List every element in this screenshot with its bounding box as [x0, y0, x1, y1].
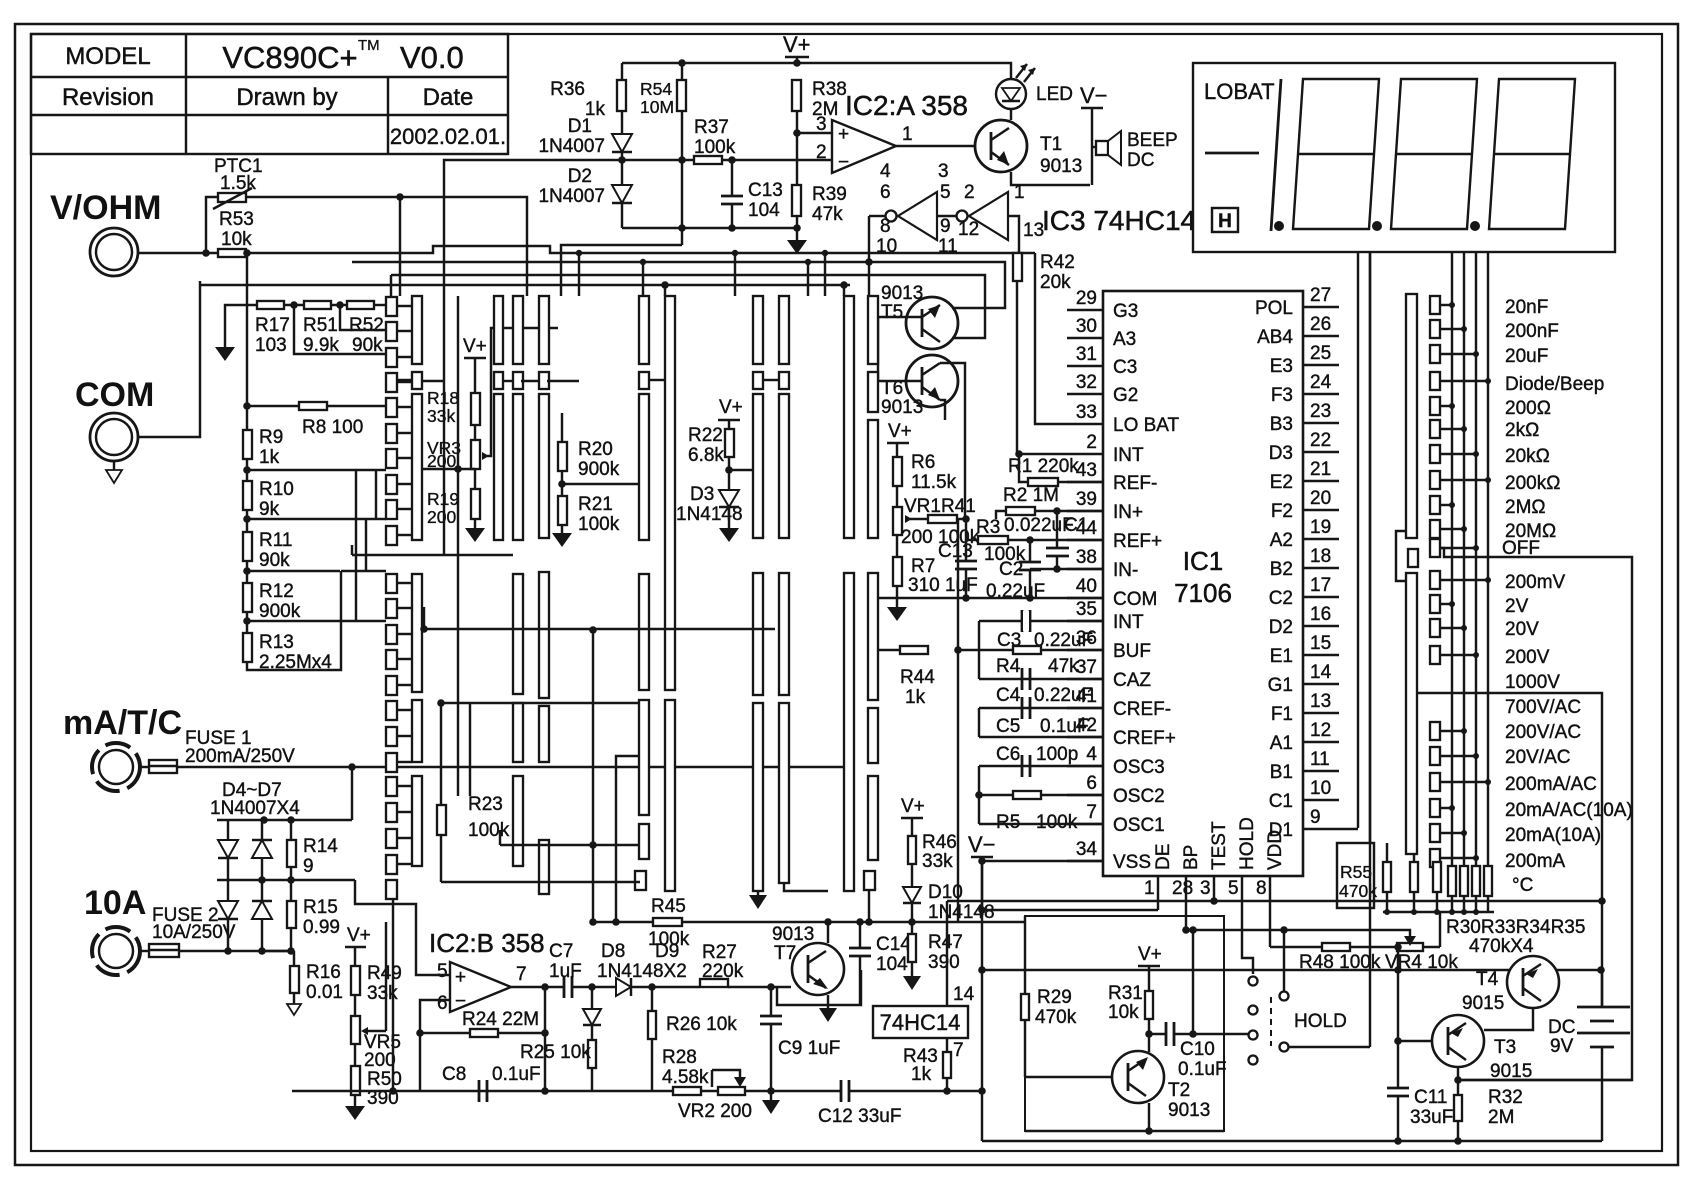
svg-text:5: 5 — [1228, 878, 1239, 899]
node R8 — [243, 402, 251, 410]
wire display to hold — [1369, 252, 1371, 1047]
svg-text:IC1: IC1 — [1183, 546, 1223, 576]
svg-text:V+: V+ — [901, 796, 925, 817]
svg-text:470k: 470k — [1035, 1007, 1077, 1028]
svg-text:R10: R10 — [259, 479, 294, 500]
wire PTC1 output — [246, 197, 527, 296]
switch contact — [386, 753, 397, 772]
svg-text:R52: R52 — [349, 315, 384, 336]
pin 20 F2 — [1303, 509, 1339, 511]
svg-text:23: 23 — [1310, 401, 1331, 422]
wire — [1270, 946, 1322, 948]
pin 35 INT — [1067, 620, 1103, 622]
wire — [1440, 380, 1488, 382]
junction — [589, 841, 597, 849]
wire — [503, 380, 513, 382]
wire COM bus — [200, 284, 850, 286]
wire — [1024, 916, 1026, 994]
svg-text:100k: 100k — [468, 820, 510, 841]
svg-text:V+: V+ — [1138, 944, 1162, 965]
wire — [946, 1078, 948, 1091]
resistor R16 — [293, 951, 295, 966]
svg-text:32: 32 — [1076, 372, 1097, 393]
junction — [1454, 1137, 1462, 1145]
wire — [1383, 911, 1494, 913]
svg-text:R5: R5 — [996, 812, 1020, 833]
svg-text:5: 5 — [940, 182, 951, 203]
wire drop x643 — [642, 262, 644, 296]
resistor R25 — [588, 1040, 596, 1068]
wire D1-D2 node to left and down — [618, 156, 626, 164]
svg-text:9k: 9k — [259, 499, 280, 520]
wire — [397, 379, 412, 381]
pin 38 IN- — [1067, 568, 1103, 570]
resistor R49 — [351, 966, 360, 995]
resistor R21 — [558, 496, 567, 525]
svg-text:C6: C6 — [996, 744, 1020, 765]
svg-text:TM: TM — [358, 37, 380, 54]
wire opamp out to T1 base — [896, 145, 976, 147]
pin 26 AB4 — [1303, 335, 1339, 337]
wire — [947, 1090, 983, 1092]
digit 8 #1 — [1293, 79, 1379, 229]
svg-text:4: 4 — [880, 161, 891, 182]
switch wafer bar — [753, 394, 763, 538]
svg-text:20V: 20V — [1505, 619, 1539, 640]
svg-text:H: H — [1218, 211, 1232, 232]
wire — [1457, 1121, 1459, 1141]
svg-text:12: 12 — [958, 219, 979, 240]
wire bottom rail — [982, 1140, 1602, 1142]
svg-text:10A: 10A — [84, 884, 146, 922]
junction — [1394, 1137, 1402, 1145]
svg-text:R32: R32 — [1488, 1087, 1523, 1108]
junction — [908, 918, 916, 926]
svg-text:100k: 100k — [1036, 812, 1078, 833]
node + wire to stubs — [243, 466, 251, 474]
svg-text:C8: C8 — [442, 1064, 466, 1085]
svg-text:R49: R49 — [367, 963, 402, 984]
svg-text:27: 27 — [1310, 285, 1331, 306]
svg-text:R36: R36 — [550, 79, 585, 100]
svg-text:8: 8 — [1256, 878, 1267, 899]
ground arrow below R21 — [552, 533, 572, 547]
svg-text:A1: A1 — [1270, 733, 1293, 754]
svg-text:C7: C7 — [549, 941, 573, 962]
svg-text:900k: 900k — [578, 459, 620, 480]
wire — [397, 406, 412, 408]
svg-text:R20: R20 — [578, 439, 613, 460]
junction — [1473, 652, 1479, 658]
svg-text:220k: 220k — [702, 961, 744, 982]
switch wafer bar — [494, 296, 503, 364]
svg-text:R51: R51 — [303, 315, 338, 336]
wire — [763, 379, 779, 381]
resistor R32 — [1454, 1095, 1462, 1121]
wire T6 to R41 node — [940, 363, 965, 519]
switch wafer bar — [753, 573, 763, 695]
svg-text:9013: 9013 — [881, 397, 923, 418]
wire R54 bottom to bars — [561, 245, 682, 296]
wire — [397, 483, 412, 485]
svg-text:13: 13 — [1310, 691, 1331, 712]
resistor R13 — [243, 633, 252, 662]
pin 19 A2 — [1303, 538, 1339, 540]
svg-text:REF-: REF- — [1113, 473, 1157, 494]
svg-text:CREF-: CREF- — [1113, 699, 1171, 720]
wire ladder riser to V bus — [246, 253, 248, 406]
svg-text:47k: 47k — [1048, 656, 1079, 677]
svg-text:2V: 2V — [1505, 596, 1529, 617]
resistor VR2 — [718, 1087, 745, 1095]
wire — [1350, 946, 1397, 948]
wire T2 base — [1025, 1076, 1112, 1078]
svg-text:R28: R28 — [662, 1047, 697, 1068]
pin 6 OSC2 — [1067, 794, 1103, 796]
svg-text:R4: R4 — [996, 656, 1021, 677]
resistor R43 — [943, 1052, 951, 1078]
svg-text:A3: A3 — [1113, 329, 1136, 350]
wire — [397, 508, 412, 510]
svg-text:COM: COM — [1113, 589, 1157, 610]
switch contact 2MΩ — [1430, 496, 1440, 514]
resistor R22 — [725, 429, 734, 457]
fuse FUSE1 — [140, 766, 149, 768]
junction — [1449, 403, 1455, 409]
svg-text:20uF: 20uF — [1505, 346, 1548, 367]
wire — [547, 380, 579, 382]
wire — [441, 881, 640, 883]
switch contact — [386, 526, 397, 545]
svg-text:F3: F3 — [1271, 385, 1293, 406]
switch contact 200V — [1430, 646, 1440, 664]
pin 23 B3 — [1303, 422, 1339, 424]
switch wafer bar — [779, 296, 789, 364]
switch wafer bar — [513, 394, 523, 540]
wire R52 left node jog down — [340, 305, 385, 330]
ground R16 hollow arrow — [293, 993, 295, 1004]
junction — [767, 983, 775, 991]
switch wafer bar — [753, 703, 763, 891]
wire — [397, 863, 412, 865]
svg-text:11: 11 — [938, 236, 958, 257]
wire — [651, 987, 653, 1011]
wire — [1440, 453, 1476, 455]
switch contact — [386, 701, 397, 720]
junction — [1461, 830, 1467, 836]
wire — [1440, 504, 1452, 506]
svg-text:470k: 470k — [1339, 881, 1377, 901]
switch contact — [386, 650, 397, 669]
switch contact — [386, 829, 397, 848]
svg-text:1: 1 — [1144, 878, 1155, 899]
svg-text:R2 1M: R2 1M — [1003, 485, 1059, 506]
ground arrow below R39 — [787, 240, 807, 254]
switch wafer bar — [539, 372, 549, 389]
wire — [911, 864, 913, 887]
svg-text:R44: R44 — [900, 667, 935, 688]
wire — [1440, 428, 1464, 430]
svg-text:V+: V+ — [463, 336, 487, 357]
wire — [1283, 930, 1285, 992]
wire op-amp + input — [355, 880, 450, 975]
svg-text:C14: C14 — [876, 934, 911, 955]
switch wafer bar — [412, 776, 422, 866]
switch contact — [386, 574, 397, 593]
switch HOLD — [1249, 977, 1258, 986]
junction — [978, 1087, 986, 1095]
svg-text:VDD: VDD — [1265, 830, 1286, 870]
pin 12 A1 — [1303, 741, 1339, 743]
capacitor C14 104 — [849, 947, 871, 950]
svg-text:9: 9 — [940, 216, 951, 237]
junction — [1394, 966, 1402, 974]
wire T2 emitter — [1148, 1103, 1150, 1131]
switch contact 20mA/AC(10A) — [1430, 799, 1440, 817]
svg-text:33k: 33k — [427, 406, 455, 426]
wire — [1440, 832, 1464, 834]
svg-text:35: 35 — [1076, 599, 1097, 620]
wire — [1439, 912, 1441, 947]
svg-text:REF+: REF+ — [1113, 531, 1162, 552]
svg-text:10k: 10k — [221, 229, 252, 250]
junction — [1145, 1030, 1153, 1038]
wire VR4 to C11 — [1397, 947, 1399, 1088]
svg-text:C10: C10 — [1180, 1039, 1215, 1060]
switch wafer bar — [412, 574, 422, 692]
wire — [397, 811, 412, 813]
switch contact — [386, 398, 397, 417]
svg-text:28: 28 — [1172, 878, 1193, 899]
svg-text:33uF: 33uF — [1410, 1107, 1453, 1128]
wire — [592, 630, 594, 922]
terminal V/OHM — [50, 189, 161, 276]
svg-text:5: 5 — [437, 961, 448, 982]
wire COM row extension — [878, 597, 1103, 599]
resistor R7 — [893, 557, 902, 586]
wire — [1440, 603, 1452, 605]
wire drop x735 — [734, 253, 736, 296]
pin 10 C1 — [1303, 799, 1339, 801]
svg-text:0.1uF: 0.1uF — [1040, 716, 1089, 737]
wire drop x391 — [390, 275, 392, 296]
inverter gates — [898, 192, 937, 240]
svg-text:IN+: IN+ — [1113, 502, 1143, 523]
wire — [651, 1039, 653, 1091]
pin 30 A3 — [1067, 337, 1103, 339]
resistor R39 — [792, 185, 801, 216]
wire T7 bias box — [777, 970, 861, 1005]
svg-text:200V: 200V — [1505, 647, 1550, 668]
resistor R12 — [243, 583, 252, 612]
pin 32 G2 — [1067, 393, 1103, 395]
switch contact 200Ω — [1430, 397, 1440, 415]
wire — [498, 1032, 545, 1034]
svg-text:B2: B2 — [1270, 559, 1293, 580]
switch contact — [386, 500, 397, 519]
wire battery - — [1601, 1047, 1603, 1141]
leading digit 1 — [1271, 79, 1281, 231]
pin 39 IN+ — [1067, 510, 1103, 512]
svg-text:C2: C2 — [1269, 588, 1293, 609]
junction — [1449, 302, 1455, 308]
switch wafer bar — [539, 840, 549, 894]
wire — [1148, 966, 1150, 991]
svg-text:1N4007: 1N4007 — [538, 186, 605, 207]
wire — [424, 628, 775, 630]
svg-text:200mA/AC: 200mA/AC — [1505, 774, 1597, 795]
wire — [397, 684, 412, 686]
svg-text:2: 2 — [1086, 432, 1097, 453]
junction — [1461, 625, 1467, 631]
capacitor C8 0.1uF — [478, 1080, 481, 1102]
resistor R10 — [243, 481, 252, 510]
svg-text:MODEL: MODEL — [65, 43, 150, 70]
svg-text:100k: 100k — [694, 137, 736, 158]
switch wafer bar — [868, 372, 878, 412]
svg-text:11: 11 — [1310, 749, 1330, 770]
wire drop x825 — [824, 253, 826, 296]
switch wafer bar — [868, 776, 878, 860]
svg-text:R12: R12 — [259, 581, 294, 602]
wire — [376, 518, 386, 520]
svg-text:V+: V+ — [347, 925, 371, 946]
svg-text:0.22uF: 0.22uF — [1034, 630, 1093, 651]
junction — [1485, 779, 1491, 785]
switch contact 200V/AC — [1430, 722, 1440, 740]
node wire junction + drop — [396, 193, 404, 201]
wire — [397, 432, 412, 434]
switch contact OFF — [1430, 539, 1440, 557]
svg-text:OSC3: OSC3 — [1113, 757, 1165, 778]
diode D6 — [218, 901, 238, 919]
resistor R6 — [893, 457, 902, 486]
ground arrow below R50 — [354, 1095, 356, 1106]
pot VR3 — [471, 440, 480, 469]
resistor R30/R33/R34/R35 — [1484, 866, 1492, 896]
wire — [1440, 627, 1464, 629]
svg-text:G2: G2 — [1113, 385, 1138, 406]
svg-text:34: 34 — [1076, 839, 1098, 860]
svg-text:C4: C4 — [996, 685, 1021, 706]
wire — [701, 1090, 718, 1092]
wire — [616, 756, 639, 922]
pin 14 G1 — [1303, 683, 1339, 685]
switch wafer bar — [868, 296, 878, 364]
svg-text:4: 4 — [1086, 744, 1097, 765]
svg-text:D3: D3 — [1269, 443, 1293, 464]
wire — [340, 571, 342, 622]
switch contact — [386, 676, 397, 695]
svg-text:R8 100: R8 100 — [302, 417, 363, 438]
svg-text:R47: R47 — [928, 932, 963, 953]
svg-text:T2: T2 — [1168, 1080, 1190, 1101]
resistor R30/R33/R34/R35 — [1472, 866, 1480, 896]
svg-text:7: 7 — [516, 964, 527, 985]
junction — [943, 1087, 951, 1095]
svg-text:200mV: 200mV — [1505, 572, 1566, 593]
wire R51 left node jog down — [294, 305, 385, 354]
switch wafer bar — [494, 394, 503, 540]
svg-text:C13: C13 — [938, 541, 973, 562]
wire — [1157, 898, 1159, 910]
wire drop x808 — [807, 262, 809, 296]
switch contact 200kΩ — [1430, 471, 1440, 489]
svg-text:2M: 2M — [1488, 1107, 1514, 1128]
wire BP — [1185, 898, 1187, 930]
switch contact 2V — [1430, 595, 1440, 613]
bracket 35-37 — [978, 621, 980, 679]
diode D10 — [903, 887, 921, 903]
svg-text:1N4148X2: 1N4148X2 — [597, 961, 687, 982]
svg-text:C1: C1 — [1269, 791, 1293, 812]
switch wafer bar — [868, 573, 878, 700]
wire pin 7 — [946, 1038, 948, 1052]
resistor R20 — [561, 413, 563, 442]
wire IN- row extension — [1030, 568, 1103, 570]
wire DE — [982, 909, 1158, 911]
wire R9 top — [246, 406, 248, 430]
junction — [1461, 728, 1467, 734]
svg-text:9013: 9013 — [1168, 1100, 1210, 1121]
wire TEST — [1213, 898, 1215, 902]
svg-text:DE: DE — [1153, 844, 1174, 870]
junction — [1394, 943, 1402, 951]
svg-text:R19: R19 — [427, 489, 459, 509]
wire T4 emitter to T3 — [1484, 1008, 1533, 1030]
terminal 10A — [84, 884, 146, 975]
svg-text:R54: R54 — [640, 79, 672, 99]
svg-text:4.58k: 4.58k — [662, 1067, 709, 1088]
switch wafer bar — [539, 296, 549, 364]
svg-text:mA/T/C: mA/T/C — [63, 704, 182, 742]
wire — [868, 890, 870, 922]
junction — [541, 983, 549, 991]
switch wafer bar — [844, 296, 854, 538]
svg-text:30: 30 — [1076, 316, 1097, 337]
pin 13 F1 — [1303, 712, 1339, 714]
pin 8 VDD — [1269, 876, 1271, 898]
wire V+ rail bottom — [982, 969, 1601, 971]
switch contact 200mA/AC — [1430, 773, 1440, 791]
pin 1 DE — [1157, 876, 1159, 898]
resistor R18 — [471, 393, 480, 425]
svg-text:+: + — [838, 124, 849, 145]
svg-text:9: 9 — [1310, 807, 1321, 828]
switch wafer bar — [539, 394, 549, 538]
wire R53 output bus — [246, 246, 1035, 253]
svg-text:C13: C13 — [748, 180, 783, 201]
diode D5 — [252, 840, 272, 858]
svg-text:200nF: 200nF — [1505, 321, 1559, 342]
wire — [397, 785, 412, 787]
wire — [911, 962, 913, 976]
resistor R23 — [440, 703, 442, 805]
wire — [376, 469, 386, 471]
svg-text:31: 31 — [1076, 344, 1097, 365]
switch wafer bar — [868, 708, 878, 763]
switch contact — [386, 322, 397, 341]
wire — [770, 1024, 772, 1091]
wire V/OHM to R53 — [138, 252, 218, 254]
bridge mid wire — [217, 879, 355, 881]
wire — [499, 830, 501, 845]
switch wafer bar — [494, 372, 503, 389]
resistor R51 — [304, 301, 331, 309]
svg-text:B1: B1 — [1270, 762, 1293, 783]
pin 22 D3 — [1303, 451, 1339, 453]
wire — [397, 837, 412, 839]
